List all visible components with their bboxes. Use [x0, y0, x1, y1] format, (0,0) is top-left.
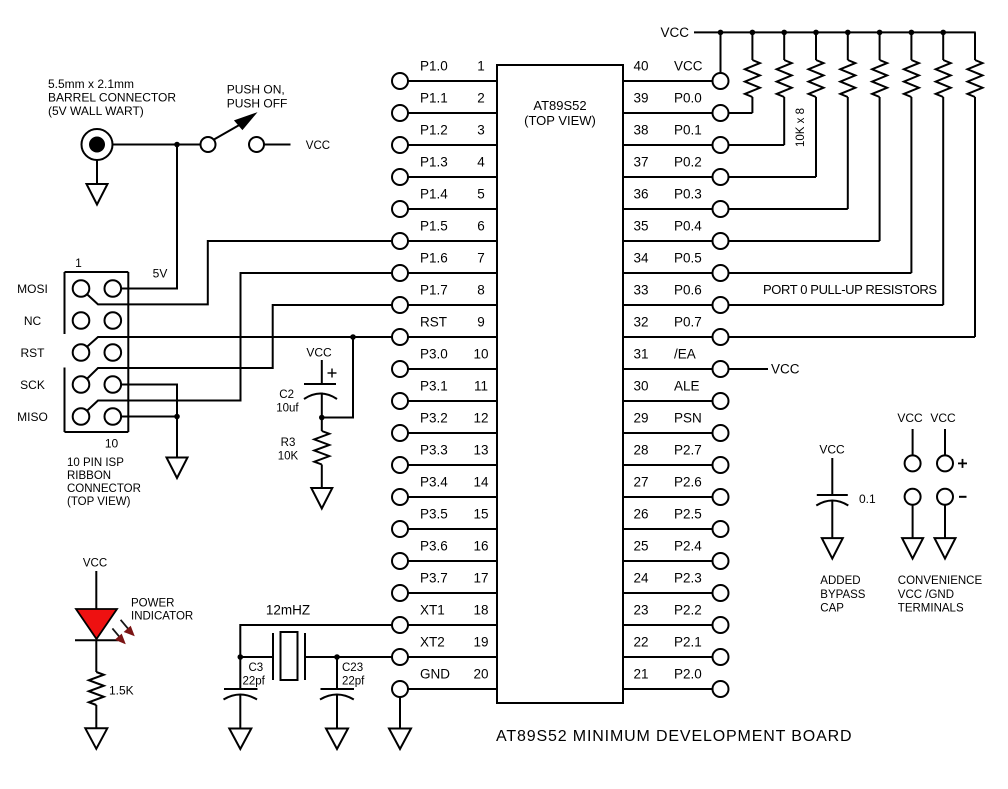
capacitor C3 22pf [224, 657, 266, 700]
label POWER INDICATOR [131, 598, 193, 623]
svg-text:P2.1: P2.1 [674, 635, 702, 650]
wire resistor to ground [95, 705, 97, 728]
pin 18 XT1 [392, 603, 497, 634]
svg-text:9: 9 [477, 315, 485, 330]
wire VCC terminal 2 [944, 429, 946, 455]
pin 29 PSN [623, 411, 729, 442]
svg-text:33: 33 [633, 283, 648, 298]
svg-text:P3.4: P3.4 [420, 475, 448, 490]
svg-text:RIBBON: RIBBON [67, 470, 111, 482]
svg-text:CONNECTOR: CONNECTOR [67, 483, 141, 495]
svg-text:P0.2: P0.2 [674, 155, 702, 170]
svg-text:35: 35 [633, 219, 648, 234]
pin 4 P1.3 [392, 155, 497, 186]
pin 24 P2.3 [623, 571, 729, 602]
svg-text:PUSH OFF: PUSH OFF [227, 97, 288, 111]
svg-text:PUSH ON,: PUSH ON, [227, 83, 285, 97]
ground GND pin [389, 729, 411, 750]
svg-text:ADDED: ADDED [820, 575, 860, 587]
pin 39 P0.0 [623, 91, 729, 122]
svg-text:22pf: 22pf [243, 676, 266, 688]
svg-text:P3.3: P3.3 [420, 443, 448, 458]
svg-text:12mHZ: 12mHZ [266, 603, 310, 618]
connector J2 10 pin ISP box [65, 272, 129, 432]
pin 19 XT2 [392, 635, 497, 666]
svg-text:39: 39 [633, 91, 648, 106]
svg-text:RST: RST [21, 346, 46, 360]
svg-text:TERMINALS: TERMINALS [898, 603, 964, 615]
wire ISP ground MISO row [121, 417, 177, 458]
pin 2 P1.1 [392, 91, 497, 122]
svg-text:P3.1: P3.1 [420, 379, 448, 394]
svg-text:P2.2: P2.2 [674, 603, 702, 618]
svg-text:1: 1 [75, 256, 82, 270]
svg-text:P2.7: P2.7 [674, 443, 702, 458]
LED light arrow 1 [121, 620, 134, 636]
svg-text:CONVENIENCE: CONVENIENCE [898, 575, 983, 587]
svg-text:P0.7: P0.7 [674, 315, 702, 330]
svg-text:31: 31 [633, 347, 648, 362]
svg-text:C23: C23 [342, 662, 363, 674]
wire rail to pin40 [720, 32, 722, 73]
ground terminal 2 [935, 538, 956, 559]
resistor pullup R8 10K [729, 30, 888, 241]
svg-text:1: 1 [477, 59, 485, 74]
svg-text:10: 10 [473, 347, 488, 362]
wire crystal right to node [305, 656, 337, 658]
svg-text:P0.0: P0.0 [674, 91, 702, 106]
pin 40 VCC [623, 59, 729, 90]
wire RST to RST pin [87, 337, 392, 347]
svg-text:CAP: CAP [820, 603, 844, 615]
pin 9 RST [392, 315, 497, 346]
connector pin circles row MOSI [73, 280, 121, 297]
svg-text:PORT 0 PULL-UP RESISTORS: PORT 0 PULL-UP RESISTORS [763, 282, 937, 297]
pin 13 P3.3 [392, 443, 497, 474]
svg-text:POWER: POWER [131, 598, 174, 610]
svg-text:VCC /GND: VCC /GND [898, 589, 954, 601]
svg-text:MOSI: MOSI [17, 282, 48, 296]
svg-text:P0.3: P0.3 [674, 187, 702, 202]
label plus [958, 459, 967, 468]
svg-text:BYPASS: BYPASS [820, 589, 865, 601]
svg-text:8: 8 [477, 283, 485, 298]
wire barrel to switch [113, 144, 201, 146]
svg-text:P3.6: P3.6 [420, 539, 448, 554]
svg-text:P3.0: P3.0 [420, 347, 448, 362]
svg-text:P1.0: P1.0 [420, 59, 448, 74]
terminal GND circle 1 [905, 489, 921, 505]
wire XT1 to crystal node [240, 625, 392, 657]
svg-text:14: 14 [473, 475, 489, 490]
pin 5 P1.4 [392, 187, 497, 218]
svg-text:BARREL CONNECTOR: BARREL CONNECTOR [48, 91, 176, 105]
svg-text:P3.7: P3.7 [420, 571, 448, 586]
wire C2 to node [321, 393, 323, 418]
svg-text:AT89S52 MINIMUM DEVELOPMENT: AT89S52 MINIMUM DEVELOPMENT BOARD [496, 728, 852, 745]
node ISP ground junction [174, 414, 180, 420]
pin 14 P3.4 [392, 475, 497, 506]
svg-text:6: 6 [477, 219, 485, 234]
label ADDED BYPASS CAP [820, 575, 865, 615]
pin 20 GND [392, 667, 497, 698]
svg-text:P1.3: P1.3 [420, 155, 448, 170]
svg-text:2: 2 [477, 91, 485, 106]
wire VCC terminal 1 [912, 429, 914, 455]
svg-text:P0.1: P0.1 [674, 123, 702, 138]
wire bypass cap to ground [831, 501, 833, 539]
connector pin circles row NC [73, 312, 121, 329]
pin 10 P3.0 [392, 347, 497, 378]
resistor pullup R10 10K [729, 30, 951, 305]
svg-text:(5V WALL WART): (5V WALL WART) [48, 104, 144, 118]
wire switch to VCC [264, 144, 291, 146]
ground ISP [167, 458, 188, 479]
svg-text:32: 32 [633, 315, 648, 330]
svg-text:10K x 8: 10K x 8 [795, 108, 807, 147]
svg-text:P0.5: P0.5 [674, 251, 702, 266]
svg-text:P2.0: P2.0 [674, 667, 702, 682]
svg-text:VCC: VCC [306, 346, 332, 360]
svg-text:16: 16 [473, 539, 488, 554]
svg-text:VCC: VCC [674, 59, 703, 74]
pin 25 P2.4 [623, 539, 729, 570]
svg-text:28: 28 [633, 443, 648, 458]
capacitor C2 10uf [276, 369, 337, 415]
ground bypass [822, 538, 843, 559]
svg-text:P1.1: P1.1 [420, 91, 448, 106]
node C3 junction [238, 654, 244, 660]
connector pin circles row RST [73, 344, 121, 361]
svg-text:10: 10 [105, 437, 119, 451]
svg-text:RST: RST [420, 315, 447, 330]
svg-text:12: 12 [473, 411, 488, 426]
svg-text:22: 22 [633, 635, 648, 650]
ground terminal 1 [902, 538, 923, 559]
svg-text:P1.4: P1.4 [420, 187, 448, 202]
ground R3 [311, 488, 332, 509]
resistor pullup R7 10K [729, 30, 856, 209]
label CONVENIENCE VCC/GND TERMINALS [898, 575, 983, 615]
wire C3 to ground [239, 695, 241, 729]
svg-text:VCC: VCC [306, 140, 330, 152]
svg-text:5.5mm x 2.1mm: 5.5mm x 2.1mm [48, 77, 134, 91]
svg-text:13: 13 [473, 443, 488, 458]
svg-text:3: 3 [477, 123, 485, 138]
pin 23 P2.2 [623, 603, 729, 634]
svg-text:26: 26 [633, 507, 648, 522]
wire /EA to VCC [729, 368, 768, 370]
svg-text:INDICATOR: INDICATOR [131, 611, 193, 623]
svg-text:30: 30 [633, 379, 648, 394]
pin 21 P2.0 [623, 667, 729, 698]
wire VCC to LED [95, 571, 97, 609]
wire SCK to P1.7 [87, 305, 392, 379]
resistor pullup R4 10K [729, 30, 760, 113]
pin 28 P2.7 [623, 443, 729, 474]
svg-text:(TOP VIEW): (TOP VIEW) [524, 113, 596, 128]
connector pin circles row SCK [73, 376, 121, 393]
svg-text:P2.3: P2.3 [674, 571, 702, 586]
resistor R 1.5K [89, 672, 134, 705]
svg-text:5V: 5V [153, 267, 168, 281]
wire ISP ground SCK row [121, 385, 177, 417]
svg-text:22pf: 22pf [342, 676, 365, 688]
svg-text:40: 40 [633, 59, 648, 74]
svg-text:10K: 10K [278, 451, 299, 463]
wire 5V net [121, 145, 177, 289]
node C2/R3 junction [319, 415, 325, 421]
svg-text:P2.5: P2.5 [674, 507, 702, 522]
node rail pin40 [718, 30, 724, 36]
wire GND terminal 1 [912, 505, 914, 538]
svg-text:ALE: ALE [674, 379, 700, 394]
svg-text:19: 19 [473, 635, 488, 650]
svg-text:38: 38 [633, 123, 648, 138]
resistor pullup R5 10K [729, 30, 792, 145]
wire GND pin to ground [399, 697, 401, 729]
wire MISO to P1.6 [87, 273, 392, 411]
svg-text:P2.6: P2.6 [674, 475, 702, 490]
svg-text:C3: C3 [249, 662, 264, 674]
pin 35 P0.4 [623, 219, 729, 250]
svg-text:PSN: PSN [674, 411, 702, 426]
svg-text:P1.7: P1.7 [420, 283, 448, 298]
svg-text:NC: NC [24, 314, 42, 328]
ground barrel [87, 184, 108, 205]
svg-text:P1.2: P1.2 [420, 123, 448, 138]
svg-text:25: 25 [633, 539, 648, 554]
svg-text:17: 17 [473, 571, 488, 586]
capacitor C23 22pf [320, 657, 365, 700]
resistor pullup R6 10K [729, 30, 824, 177]
capacitor bypass 0.1 [816, 492, 876, 506]
resistor pullup R11 10K [729, 32, 983, 337]
wire VCC to C2 [321, 360, 323, 384]
svg-text:R3: R3 [281, 437, 296, 449]
pin 6 P1.5 [392, 219, 497, 250]
svg-text:VCC: VCC [930, 411, 956, 425]
svg-text:P0.4: P0.4 [674, 219, 702, 234]
pin 36 P0.3 [623, 187, 729, 218]
wire node to XT2 [337, 656, 392, 658]
svg-text:XT2: XT2 [420, 635, 445, 650]
node RST junction [350, 334, 356, 340]
ground LED [85, 728, 107, 749]
svg-text:VCC: VCC [83, 558, 107, 570]
svg-text:11: 11 [474, 379, 488, 394]
svg-text:34: 34 [633, 251, 649, 266]
svg-text:1.5K: 1.5K [109, 684, 134, 698]
svg-text:AT89S52: AT89S52 [533, 98, 586, 113]
pin 27 P2.6 [623, 475, 729, 506]
svg-text:VCC: VCC [897, 411, 923, 425]
resistor R3 10K [278, 418, 330, 489]
wire C23 to ground [336, 695, 338, 729]
wire GND terminal 2 [944, 505, 946, 538]
terminal GND circle 2 [937, 489, 953, 505]
svg-text:/EA: /EA [674, 347, 696, 362]
svg-text:4: 4 [477, 155, 485, 170]
pin 30 ALE [623, 379, 729, 410]
svg-text:10uf: 10uf [276, 403, 299, 415]
svg-text:C2: C2 [279, 389, 294, 401]
wire LED to resistor [95, 640, 97, 672]
svg-text:20: 20 [473, 667, 488, 682]
svg-text:XT1: XT1 [420, 603, 445, 618]
svg-text:37: 37 [633, 155, 648, 170]
pin 3 P1.2 [392, 123, 497, 154]
svg-text:18: 18 [473, 603, 488, 618]
svg-text:SCK: SCK [20, 378, 45, 392]
connector pin circles row MISO [73, 408, 121, 425]
node C23 junction [334, 654, 340, 660]
pin 16 P3.6 [392, 539, 497, 570]
wire barrel to ground [96, 160, 98, 184]
switch S1 push on/push off [201, 83, 288, 153]
pin 15 P3.5 [392, 507, 497, 538]
pin 31 /EA [623, 347, 729, 378]
svg-text:P1.5: P1.5 [420, 219, 448, 234]
label ISP caption [67, 457, 141, 508]
svg-text:MISO: MISO [17, 410, 48, 424]
svg-text:0.1: 0.1 [859, 492, 876, 506]
terminal VCC circle 2 [937, 455, 953, 471]
pin 8 P1.7 [392, 283, 497, 314]
pin 26 P2.5 [623, 507, 729, 538]
ground C3 [229, 729, 251, 750]
svg-text:15: 15 [473, 507, 488, 522]
pin 12 P3.2 [392, 411, 497, 442]
svg-text:23: 23 [633, 603, 648, 618]
pin 34 P0.5 [623, 251, 729, 282]
pin 11 P3.1 [392, 379, 497, 410]
svg-text:36: 36 [633, 187, 648, 202]
svg-text:P1.6: P1.6 [420, 251, 448, 266]
svg-text:7: 7 [477, 251, 485, 266]
LED light arrow 2 [112, 628, 125, 643]
svg-text:5: 5 [477, 187, 485, 202]
svg-text:21: 21 [633, 667, 648, 682]
barrel connector J1 5.5mm x 2.1mm [48, 77, 176, 160]
pin 33 P0.6 [623, 283, 729, 314]
IC U1 AT89S52 body [497, 65, 623, 703]
LED D1 power indicator [75, 609, 118, 640]
svg-text:P3.5: P3.5 [420, 507, 448, 522]
wire VCC to bypass cap [831, 458, 833, 495]
pin 17 P3.7 [392, 571, 497, 602]
wire node to RST junction [322, 337, 353, 418]
svg-text:27: 27 [633, 475, 648, 490]
svg-text:P3.2: P3.2 [420, 411, 448, 426]
pin 38 P0.1 [623, 123, 729, 154]
pin 7 P1.6 [392, 251, 497, 282]
svg-text:GND: GND [420, 667, 450, 682]
svg-text:10 PIN ISP: 10 PIN ISP [67, 457, 124, 469]
resistor pullup R9 10K [729, 30, 919, 273]
wire MOSI to P1.5 [87, 241, 392, 304]
pin 22 P2.1 [623, 635, 729, 666]
pin 1 P1.0 [392, 59, 497, 90]
svg-text:VCC: VCC [660, 25, 689, 40]
svg-text:P2.4: P2.4 [674, 539, 702, 554]
wire VCC rail [694, 31, 976, 33]
svg-text:VCC: VCC [771, 362, 800, 377]
ground C23 [326, 729, 348, 750]
svg-text:24: 24 [633, 571, 649, 586]
svg-text:P0.6: P0.6 [674, 283, 702, 298]
pin 37 P0.2 [623, 155, 729, 186]
svg-text:VCC: VCC [819, 443, 845, 457]
wire node to crystal left [240, 656, 273, 658]
label minus [959, 496, 967, 498]
crystal Y1 [273, 632, 305, 680]
pin 32 P0.7 [623, 315, 729, 346]
svg-text:29: 29 [633, 411, 648, 426]
terminal VCC circle 1 [905, 455, 921, 471]
node junction 5V [174, 142, 180, 148]
svg-text:(TOP VIEW): (TOP VIEW) [67, 496, 131, 508]
